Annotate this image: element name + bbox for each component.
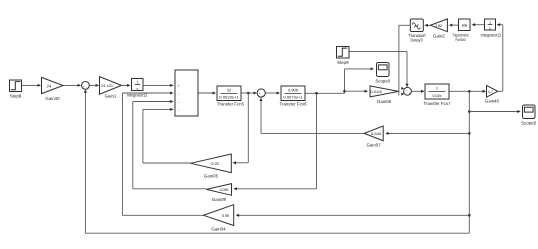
svg-text:+: + bbox=[178, 84, 180, 88]
svg-text:Function2: Function2 bbox=[456, 37, 467, 42]
svg-text:Transfer Fcn6: Transfer Fcn6 bbox=[280, 101, 308, 106]
svg-text:1: 1 bbox=[136, 81, 138, 85]
svg-text:sin: sin bbox=[462, 23, 468, 27]
svg-text:Scope5: Scope5 bbox=[375, 78, 390, 83]
svg-text:Gain05: Gain05 bbox=[204, 174, 219, 179]
svg-text:−: − bbox=[178, 92, 180, 96]
svg-text:Transfer Fcn5: Transfer Fcn5 bbox=[217, 101, 245, 106]
svg-text:1: 1 bbox=[489, 20, 491, 24]
svg-text:Scope6: Scope6 bbox=[521, 120, 536, 125]
svg-text:Transfer Fcn7: Transfer Fcn7 bbox=[424, 101, 452, 106]
svg-text:0.0033s+1: 0.0033s+1 bbox=[219, 96, 239, 100]
svg-text:0.56: 0.56 bbox=[222, 213, 230, 218]
svg-text:s: s bbox=[137, 87, 139, 91]
svg-text:Gain2: Gain2 bbox=[433, 33, 445, 38]
svg-text:Gain09: Gain09 bbox=[212, 197, 227, 202]
svg-text:0.616: 0.616 bbox=[370, 90, 382, 94]
svg-text:0.0073s+1: 0.0073s+1 bbox=[283, 96, 303, 100]
svg-text:−: − bbox=[262, 93, 264, 97]
svg-text:Gain30: Gain30 bbox=[45, 96, 60, 101]
svg-text:32: 32 bbox=[227, 87, 231, 92]
svg-text:Step8: Step8 bbox=[10, 93, 22, 98]
svg-text:0.909: 0.909 bbox=[288, 87, 298, 92]
svg-text:24: 24 bbox=[46, 84, 51, 89]
svg-text:Integrator12: Integrator12 bbox=[127, 92, 148, 97]
svg-text:Gain1: Gain1 bbox=[105, 94, 117, 99]
svg-text:1: 1 bbox=[436, 85, 438, 90]
svg-text:2.82: 2.82 bbox=[435, 24, 442, 28]
svg-text:0.03: 0.03 bbox=[211, 161, 219, 166]
svg-text:0.099: 0.099 bbox=[220, 188, 229, 192]
svg-text:−: − bbox=[178, 108, 180, 112]
svg-text:Gain07: Gain07 bbox=[367, 142, 382, 147]
svg-text:+: + bbox=[405, 89, 407, 93]
svg-text:+: + bbox=[83, 84, 85, 88]
svg-text:0.02s: 0.02s bbox=[432, 94, 441, 98]
svg-text:−: − bbox=[87, 86, 89, 90]
svg-text:Step9: Step9 bbox=[337, 60, 349, 65]
svg-text:+: + bbox=[408, 91, 410, 95]
svg-text:s: s bbox=[489, 27, 491, 31]
svg-text:0.646: 0.646 bbox=[371, 132, 382, 136]
svg-text:−: − bbox=[178, 100, 180, 104]
svg-text:Gain40: Gain40 bbox=[485, 99, 500, 104]
svg-text:0.7: 0.7 bbox=[488, 90, 493, 94]
svg-text:Gain06: Gain06 bbox=[377, 99, 392, 104]
svg-text:Integrator11: Integrator11 bbox=[481, 33, 502, 38]
svg-text:Gain04: Gain04 bbox=[211, 227, 226, 232]
svg-text:24.101: 24.101 bbox=[101, 84, 113, 88]
svg-text:+: + bbox=[258, 92, 260, 96]
svg-text:Delay3: Delay3 bbox=[411, 37, 424, 42]
